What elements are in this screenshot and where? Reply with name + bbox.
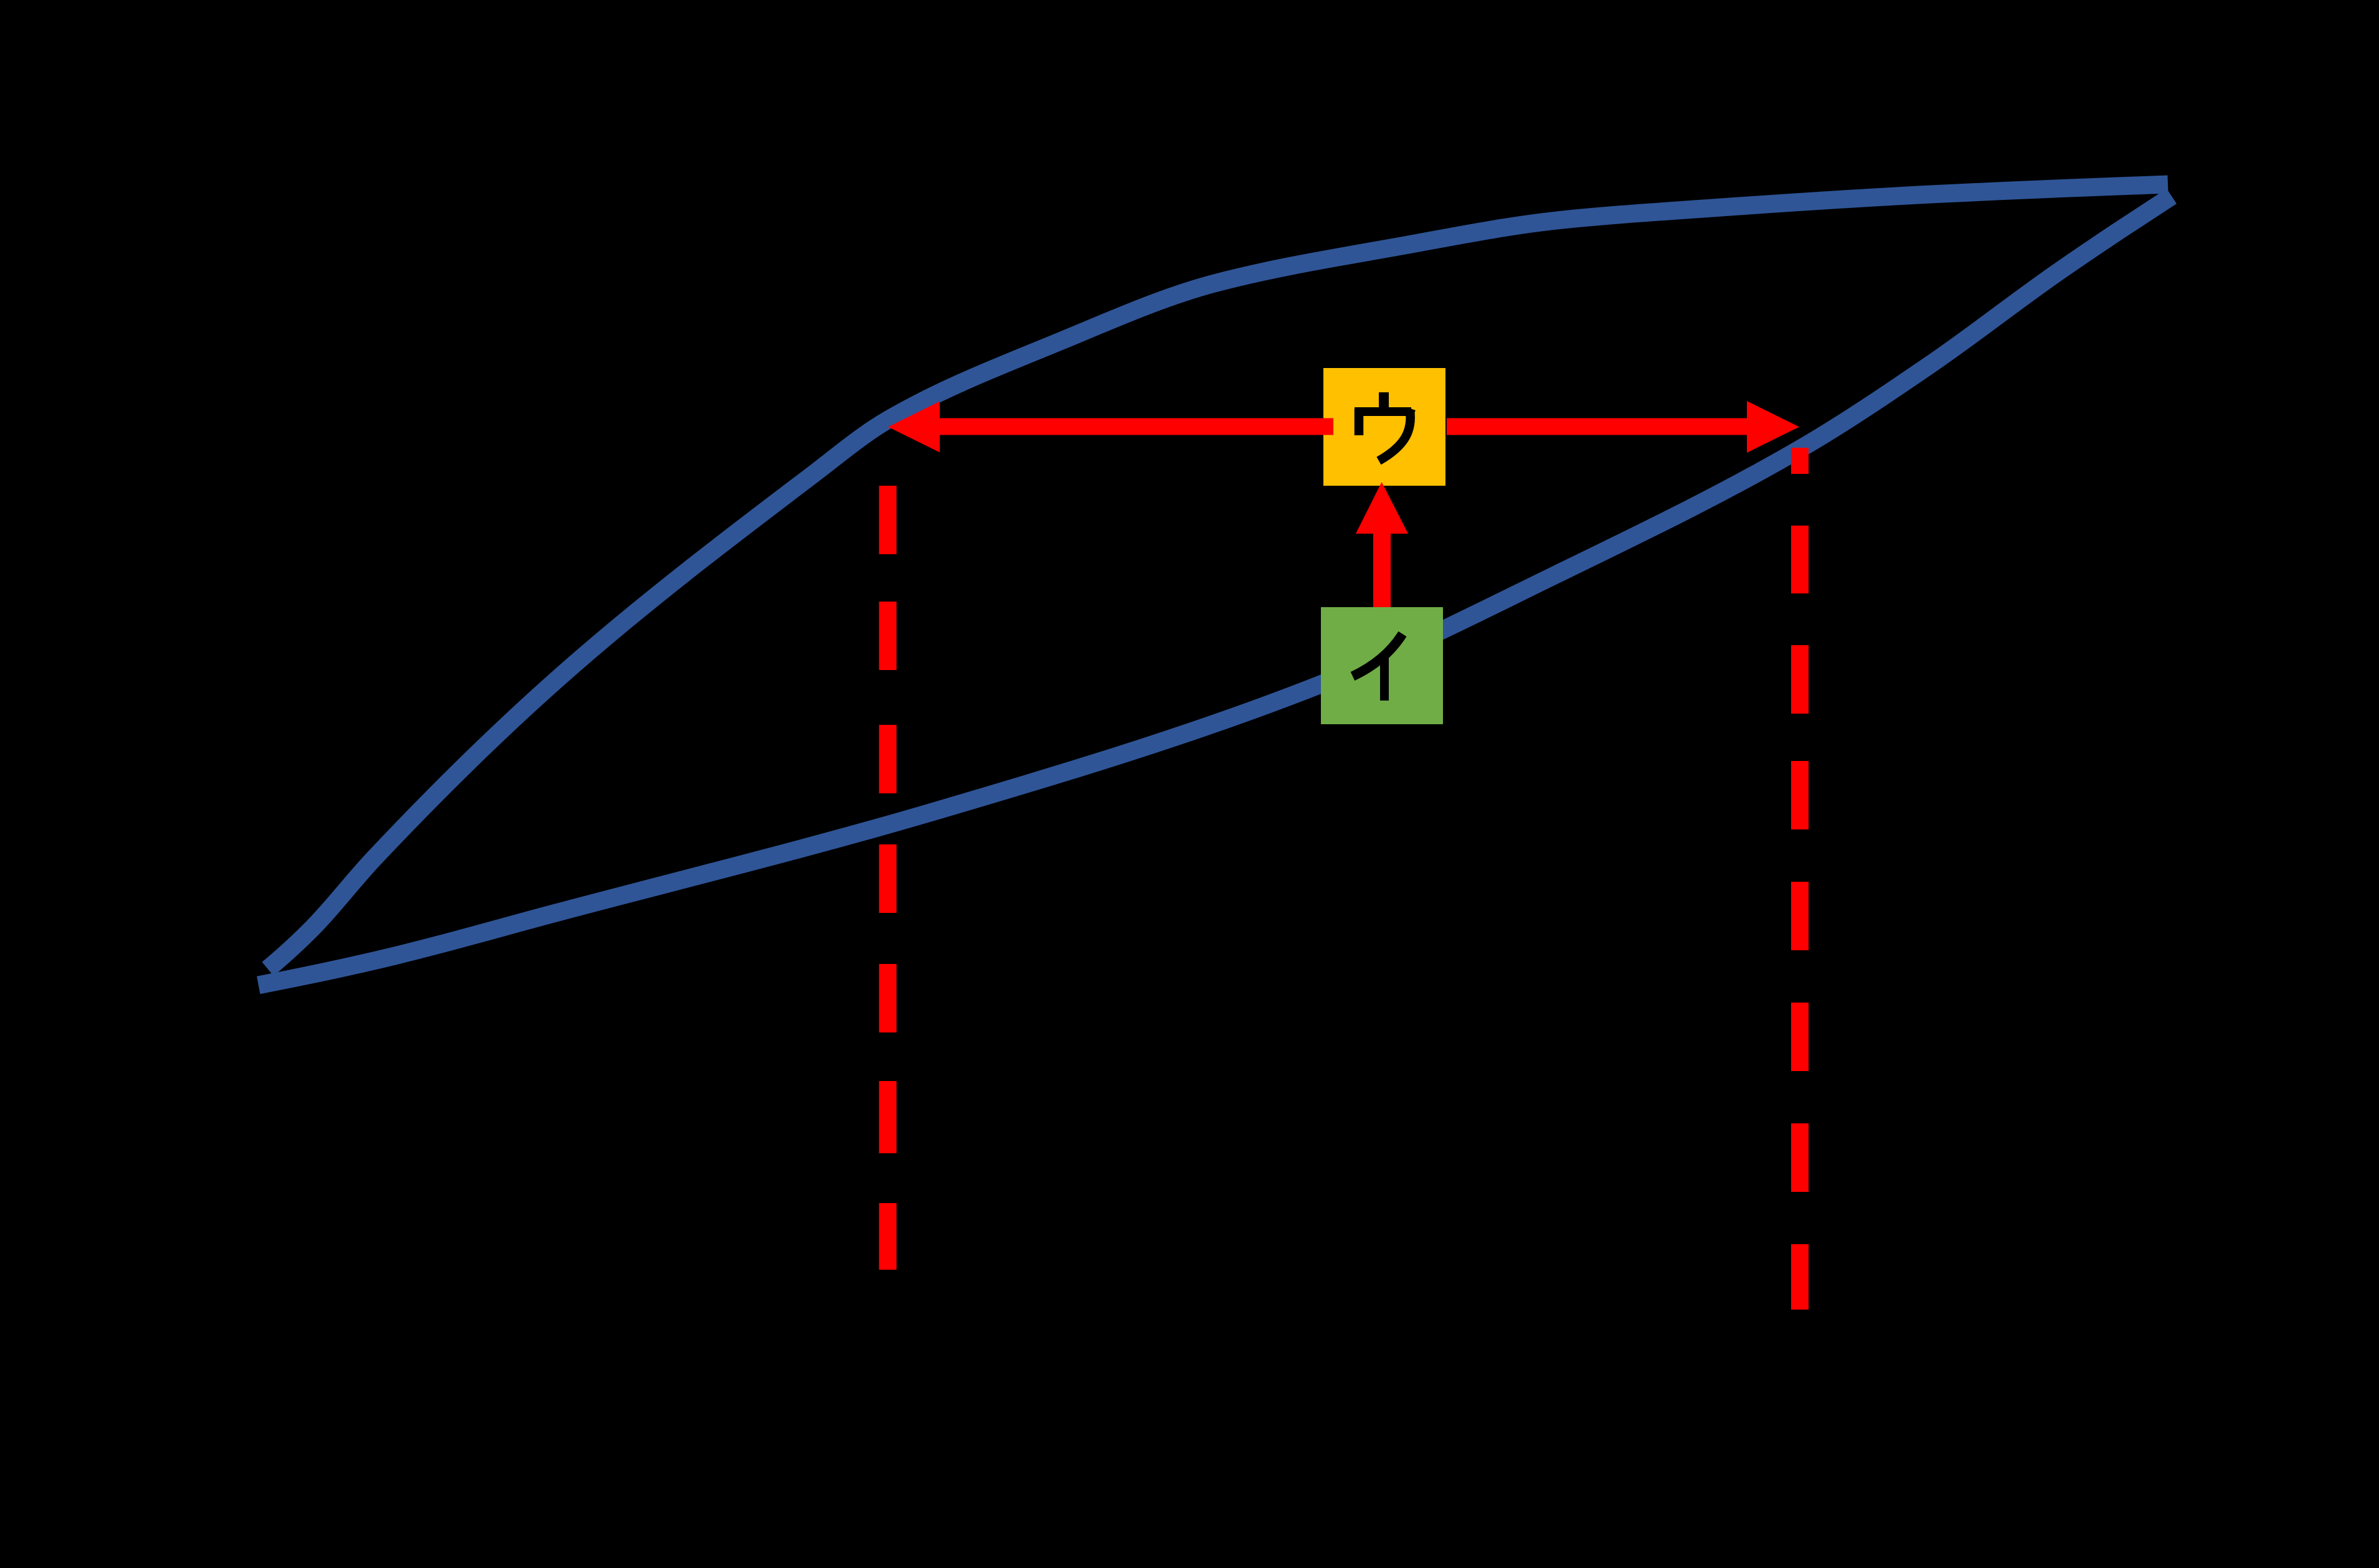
box (green) for label I: [1321, 607, 1443, 724]
arrow up (red, from green box to yellow box): [1356, 482, 1408, 607]
glyph katakana U (in yellow box): [1355, 392, 1411, 461]
curve: upper boundary of lens: [268, 184, 2168, 969]
box (yellow) for label U: [1323, 368, 1445, 486]
curve: lower boundary of lens: [258, 196, 2172, 985]
arrow left (red, tip on upper curve): [888, 402, 1333, 453]
dashed guide line (right, at x=2891): [1791, 448, 1809, 474]
dashed guide line (left, at x=1425): [879, 486, 897, 554]
glyph katakana I (in green box): [1353, 634, 1402, 701]
arrow right (red, tip on lower curve): [1447, 401, 1799, 453]
